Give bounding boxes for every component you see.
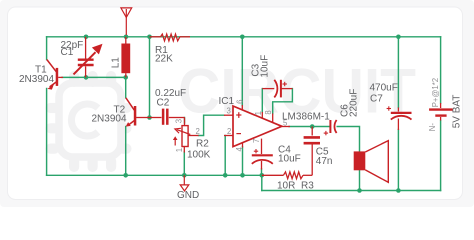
- svg-text:5: 5: [283, 119, 288, 128]
- wire battery column top: [440, 37, 442, 103]
- resistor R3 10R: [262, 172, 312, 179]
- svg-text:1: 1: [254, 111, 263, 115]
- wire C3 left to pin1: [261, 89, 263, 112]
- node C1 top: [84, 35, 89, 40]
- wire left vertical T1 emitter: [46, 89, 48, 176]
- watermark chip icon: [46, 71, 132, 172]
- svg-text:2: 2: [196, 127, 200, 136]
- speaker: [354, 141, 389, 183]
- svg-text:N-: N-: [428, 123, 437, 132]
- wire pot pin1 down: [183, 152, 185, 175]
- svg-text:10uF: 10uF: [278, 153, 301, 164]
- svg-text:47n: 47n: [316, 156, 333, 167]
- svg-text:L1: L1: [111, 57, 122, 69]
- wire battery column bottom: [440, 121, 442, 191]
- svg-text:R3: R3: [301, 180, 314, 191]
- node T2 emitter rail: [123, 173, 128, 178]
- wire T2 collector from node: [125, 77, 127, 97]
- wire IC1 pin2 to ground rail: [224, 136, 226, 176]
- wire C3 right to pin8: [273, 89, 293, 114]
- svg-text:1: 1: [175, 148, 184, 152]
- capacitor C7 470uF: [387, 106, 412, 130]
- wire speaker bottom: [359, 170, 361, 190]
- svg-text:2N3904: 2N3904: [92, 114, 127, 125]
- svg-text:IC1: IC1: [219, 96, 235, 107]
- wire C6 to speaker: [337, 127, 359, 152]
- wire T2 emitter down: [125, 127, 127, 176]
- svg-text:100K: 100K: [187, 150, 211, 161]
- inductor L1: [121, 37, 130, 78]
- svg-text:470uF: 470uF: [370, 82, 398, 93]
- node T2 base: [147, 115, 152, 120]
- svg-text:2N3904: 2N3904: [19, 74, 54, 85]
- svg-text:22K: 22K: [155, 54, 173, 65]
- battery 5V BAT: [429, 103, 453, 121]
- resistor R1 22K: [150, 34, 191, 41]
- potentiometer R2 100K: [173, 118, 199, 153]
- wire C7 column top: [397, 37, 399, 108]
- node output C5: [310, 124, 315, 129]
- capacitor C1 (variable 22pF): [74, 37, 103, 78]
- capacitor C6 220uF: [324, 120, 337, 135]
- wire IC1 output: [289, 126, 329, 128]
- wire tank bottom: [62, 76, 126, 78]
- wire IC1 pin6 to top rail: [241, 37, 243, 105]
- node R1 left: [147, 35, 152, 40]
- wire R1 left / T2 base vertical: [149, 37, 151, 118]
- node pin2 rail: [223, 173, 228, 178]
- svg-text:R2: R2: [196, 138, 209, 149]
- svg-text:GND: GND: [177, 190, 199, 201]
- wire C7 column bottom: [397, 130, 399, 191]
- capacitor C5 47n: [304, 127, 320, 176]
- ground symbol GND: [180, 175, 189, 191]
- wire rail step: [261, 175, 263, 190]
- svg-text:P+@1*2: P+@1*2: [431, 78, 440, 107]
- transistor T1 (2N3904): [47, 60, 63, 90]
- wire bottom right rail: [262, 190, 441, 192]
- svg-text:4: 4: [235, 147, 244, 152]
- svg-text:5V BAT: 5V BAT: [451, 95, 462, 129]
- svg-text:6: 6: [236, 100, 245, 104]
- antenna: [121, 8, 132, 35]
- capacitor C3 10uF: [262, 80, 292, 98]
- node C1 bottom: [84, 75, 89, 80]
- node speaker bottom rail: [357, 188, 362, 193]
- svg-text:3: 3: [227, 107, 231, 116]
- node C4 rail: [260, 173, 265, 178]
- svg-text:3: 3: [174, 119, 183, 123]
- node C7 bottom rail: [396, 188, 401, 193]
- svg-text:10uF: 10uF: [260, 55, 271, 78]
- wire C4 bottom: [261, 169, 263, 175]
- svg-text:C2: C2: [157, 97, 170, 108]
- svg-text:C7: C7: [370, 94, 383, 105]
- svg-text:7: 7: [252, 139, 261, 143]
- wire pot wiper to IC1 pin3: [199, 115, 225, 135]
- node GND rail: [182, 173, 187, 178]
- wire top rail: [47, 36, 441, 38]
- svg-text:220uF: 220uF: [349, 89, 360, 117]
- svg-text:8: 8: [264, 110, 273, 114]
- wire bottom left rail: [47, 174, 262, 176]
- node C7 top: [396, 35, 401, 40]
- capacitor C2 0.22uF: [150, 109, 185, 125]
- svg-text:10R: 10R: [277, 180, 295, 191]
- capacitor C4 10uF: [252, 144, 273, 170]
- op-amp IC1 LM386M-1: [224, 105, 290, 148]
- node L1 bottom: [123, 75, 128, 80]
- node pin4 rail: [240, 173, 245, 178]
- wire left vertical T1 collector: [46, 37, 48, 60]
- node antenna/L1: [124, 35, 129, 40]
- svg-text:2: 2: [227, 127, 231, 136]
- svg-text:LM386M-1: LM386M-1: [282, 111, 330, 122]
- svg-text:C1: C1: [61, 47, 74, 58]
- transistor T2 (2N3904): [126, 98, 150, 127]
- wire C2 to pot pin3: [184, 118, 186, 124]
- node IC1 pin6 rail: [240, 35, 245, 40]
- wire IC1 pin4 down: [242, 147, 244, 175]
